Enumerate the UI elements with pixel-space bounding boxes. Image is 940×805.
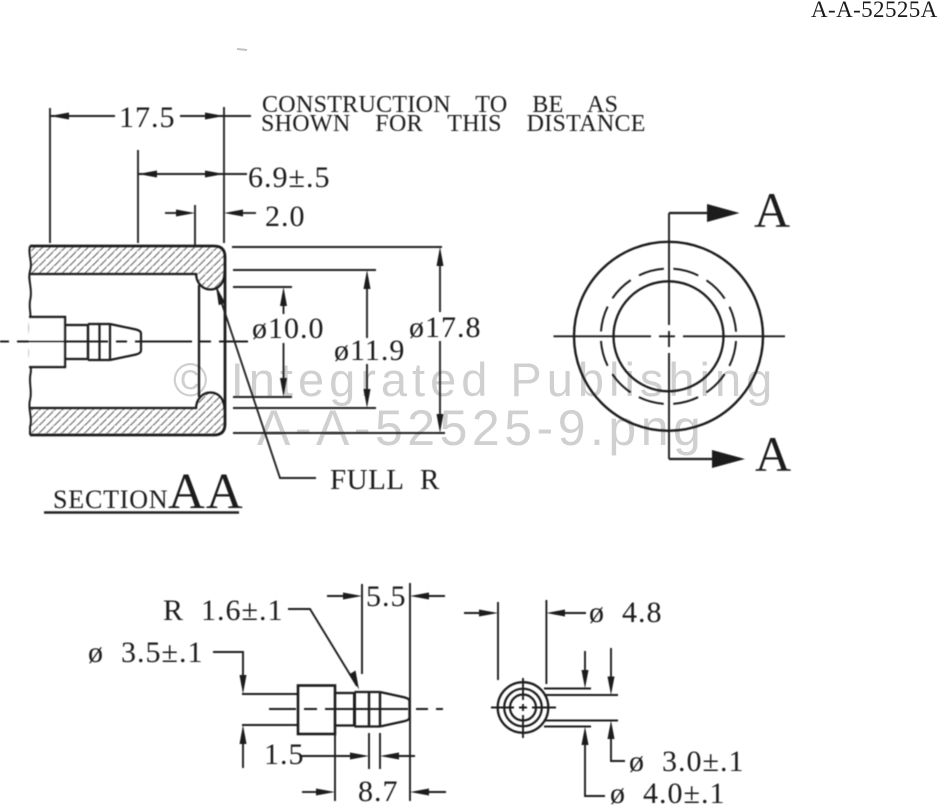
dia17.8 top arrow — [437, 247, 444, 266]
svg-text:ø10.0: ø10.0 — [252, 312, 325, 345]
nipple cone tip — [110, 324, 141, 360]
dim 5.5 left arrow — [343, 593, 362, 600]
svg-text:ø11.9: ø11.9 — [334, 334, 405, 367]
extension line x224 — [223, 107, 225, 243]
svg-text:ø17.8: ø17.8 — [409, 311, 482, 344]
dia11.9 top extension — [233, 269, 376, 271]
dim 1.5 left extension — [368, 733, 370, 769]
end view outer circle — [498, 682, 549, 733]
full radius leader arrow — [216, 286, 225, 305]
nipple ring line 2 — [98, 324, 100, 360]
dia3.5 down arrow — [240, 675, 247, 694]
dim 5.5 line left — [327, 595, 344, 597]
dim 5.5 line right — [428, 595, 445, 597]
dim 1.5 line right — [398, 755, 415, 757]
dia4.8 left extension — [497, 602, 499, 680]
full radius leader — [217, 289, 316, 478]
svg-text:SECTION: SECTION — [53, 485, 168, 514]
dia4.8 right arrow line — [564, 612, 586, 614]
break line left edge — [29, 246, 31, 435]
dim 17.5 line — [50, 115, 251, 117]
dia3.5 up arrow stem — [242, 743, 244, 768]
horizontal centerline — [554, 335, 786, 337]
detail ring line 1 — [353, 692, 356, 727]
svg-text:A-A-52525A: A-A-52525A — [811, 0, 938, 22]
nipple ring line 1 — [87, 324, 89, 360]
body hatched bottom wall — [30, 393, 225, 436]
nipple block — [29, 317, 65, 367]
dia3.5 top extension — [242, 693, 298, 695]
svg-text:1.5: 1.5 — [264, 738, 305, 771]
svg-text:A: A — [754, 182, 790, 238]
nipple neck top — [65, 324, 88, 326]
extension line x138 — [137, 150, 139, 243]
dim 6.9 left arrow — [138, 171, 157, 178]
bore wall — [198, 285, 200, 397]
dim 6.9 right arrow — [205, 171, 224, 178]
body outer outline — [30, 246, 225, 435]
detail ring top edge — [355, 691, 381, 693]
dim 2.0 right arrow line — [243, 212, 256, 214]
dim 5.5 and 8.7 right extension — [409, 583, 411, 801]
detail ring bottom edge — [355, 725, 381, 727]
dia17.8 dim line — [439, 266, 441, 414]
dim 1.5 right extension — [379, 733, 381, 769]
svg-text:A: A — [755, 426, 791, 482]
stray scan dash — [237, 49, 247, 50]
dia11.9 top arrow — [364, 270, 371, 289]
dim 8.7 right arrow — [410, 789, 429, 796]
dia4.8 left arrow — [479, 610, 498, 617]
dia3.0 bottom extension — [544, 720, 618, 722]
dia4.0 bottom arrow — [582, 727, 589, 746]
body inner cavity bottom edge — [30, 407, 196, 409]
dashed bolt circle — [601, 269, 736, 404]
dia17.8 bottom extension — [233, 432, 445, 434]
dia17.8 bottom arrow — [437, 414, 444, 433]
cutting plane bottom segment — [669, 458, 712, 460]
nipple ring bottom edge — [88, 359, 110, 361]
detail neck top — [335, 692, 355, 694]
dim 17.5 right arrow — [205, 113, 224, 120]
extension line x195 — [194, 205, 196, 246]
vertical centerline — [668, 213, 670, 459]
dia11.9 bottom extension — [233, 407, 376, 409]
dia10.0 top extension — [233, 286, 292, 288]
svg-text:R 1.6±.1: R 1.6±.1 — [163, 594, 283, 627]
dia3.0 top arrow — [608, 677, 615, 696]
detail nipple block — [298, 686, 335, 735]
dim 2.0 right arrow — [224, 210, 243, 217]
detail ring line 3 — [379, 692, 381, 727]
dia3.5 up arrow — [240, 725, 247, 744]
dia11.9 dim line — [366, 289, 368, 389]
section centerline — [0, 341, 248, 343]
dia3.5 bottom extension — [242, 724, 298, 726]
end view middle circle — [504, 689, 542, 727]
nipple ring line 3 — [109, 324, 111, 360]
end view horizontal centerline — [491, 707, 556, 709]
outer circle dia17.8 — [574, 242, 763, 431]
dia4.0 leader — [585, 744, 605, 796]
dia17.8 top extension — [232, 246, 442, 248]
section label underline — [44, 511, 239, 514]
dim 8.7 line right — [428, 791, 446, 793]
dim 1.5 right arrow — [380, 753, 399, 760]
full radius lip bottom arc — [196, 393, 225, 410]
svg-text:8.7: 8.7 — [358, 775, 399, 805]
nipple neck bottom — [65, 358, 88, 360]
dim 8.7 left extension — [334, 734, 336, 801]
dim 8.7 line left — [302, 791, 318, 793]
dia10.0 bottom arrow — [280, 378, 287, 397]
svg-text:SHOWN FOR THIS DISTANCE: SHOWN FOR THIS DISTANCE — [261, 111, 646, 137]
dia4.8 right arrow — [546, 610, 565, 617]
dia3.0 top arrow stem — [610, 648, 612, 677]
dia3.5 leader line — [213, 652, 243, 676]
extension line x50 — [49, 108, 51, 243]
svg-text:FULL R: FULL R — [330, 464, 440, 496]
dia4.0 top arrow stem — [584, 651, 586, 671]
cutting plane bottom arrow — [712, 450, 745, 468]
dim 17.5 left arrow — [50, 113, 69, 120]
dia4.0 bottom extension — [544, 726, 591, 728]
dim 1.5 left arrow — [350, 753, 369, 760]
detail cone tip — [380, 692, 410, 727]
svg-text:5.5: 5.5 — [366, 580, 407, 613]
svg-text:17.5: 17.5 — [119, 101, 176, 134]
full radius lip top arc — [196, 273, 225, 290]
dia4.0 top arrow — [582, 670, 589, 689]
detail centerline — [269, 708, 443, 710]
dia11.9 bottom arrow — [364, 389, 371, 408]
svg-text:ø 3.5±.1: ø 3.5±.1 — [88, 636, 203, 669]
svg-text:ø 4.0±.1: ø 4.0±.1 — [610, 777, 725, 805]
detail neck bottom — [335, 724, 355, 726]
dia3.0 top extension — [544, 694, 618, 696]
dia4.0 top extension — [544, 688, 591, 690]
dim 2.0 left arrow line — [165, 212, 177, 214]
dim 8.7 left arrow — [316, 789, 335, 796]
dim 5.5 left extension — [361, 584, 363, 674]
svg-text:© Integrated Publishing: © Integrated Publishing — [173, 353, 777, 406]
dia10.0 top arrow — [280, 287, 287, 306]
dia3.0 bottom arrow — [608, 721, 615, 740]
dia10.0 dim line — [283, 306, 285, 378]
cutting plane top segment — [669, 212, 708, 214]
body hatched top wall — [30, 246, 225, 290]
dia4.8 right extension — [545, 600, 547, 684]
cutting plane top arrow — [707, 204, 740, 222]
svg-text:ø 3.0±.1: ø 3.0±.1 — [629, 745, 744, 778]
dia4.8 left arrow line — [464, 612, 481, 614]
end view vertical centerline — [522, 678, 524, 738]
R1.6 leader arrow — [350, 671, 360, 690]
detail ring line 2 — [368, 692, 370, 727]
nipple ring top edge — [88, 323, 110, 325]
svg-text:2.0: 2.0 — [265, 200, 306, 233]
dia3.0 leader — [611, 738, 625, 761]
end view inner circle — [510, 695, 536, 721]
R1.6 leader — [288, 609, 357, 686]
svg-text:ø 4.8: ø 4.8 — [589, 596, 663, 629]
body inner cavity top edge — [30, 273, 196, 275]
dim 5.5 right arrow — [410, 593, 429, 600]
dim 1.5 line left — [300, 755, 352, 757]
dim 2.0 left arrow — [176, 210, 195, 217]
inner circle dia11.9 — [614, 281, 724, 391]
dia10.0 bottom extension — [233, 396, 292, 398]
svg-text:6.9±.5: 6.9±.5 — [248, 161, 330, 194]
dim 6.9 line — [138, 173, 247, 175]
